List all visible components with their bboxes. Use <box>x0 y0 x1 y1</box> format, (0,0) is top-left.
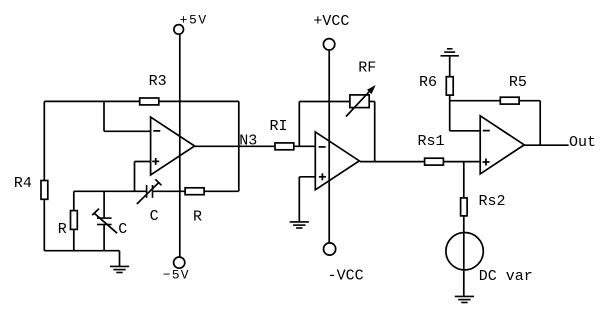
source DC var <box>446 233 483 270</box>
svg-text:R: R <box>193 208 202 225</box>
U2 plus sign <box>319 176 326 178</box>
ground U2 <box>290 221 309 223</box>
wire capacitor C1 bottom branch <box>103 225 105 251</box>
U3 minus sign <box>483 130 490 132</box>
ground DC source <box>455 295 474 297</box>
wire non-inverting drop U1 <box>134 162 136 192</box>
power -VCC terminal <box>324 243 336 255</box>
wire U2 non-inverting drop <box>298 177 300 222</box>
wire U3 output <box>524 144 568 146</box>
U1 minus sign <box>153 130 160 132</box>
resistor R5 <box>500 97 519 104</box>
svg-text:R3: R3 <box>149 73 167 90</box>
svg-text:−5V: −5V <box>163 267 190 282</box>
resistor RF (variable) <box>350 95 369 108</box>
svg-text:Rs2: Rs2 <box>479 193 506 210</box>
U2 minus sign <box>319 146 326 148</box>
power +VCC terminal <box>323 39 334 50</box>
power -5V terminal <box>174 257 185 268</box>
wire left vertical branch (R4) <box>43 101 45 250</box>
resistor R (vertical) <box>71 211 78 230</box>
wire stub R top <box>73 191 75 210</box>
wire U2 output to Rs1 <box>360 161 425 163</box>
svg-text:RI: RI <box>270 118 288 135</box>
svg-text:RF: RF <box>358 59 376 76</box>
wire U2 feedback top right segment <box>369 101 375 103</box>
svg-text:Rs1: Rs1 <box>418 133 445 150</box>
svg-text:+5V: +5V <box>180 12 208 27</box>
svg-text:DC var: DC var <box>479 268 533 285</box>
svg-text:C: C <box>150 208 159 225</box>
resistor Rs2 <box>461 198 468 216</box>
wire U2 feedback top left segment <box>299 101 350 103</box>
wire R5 feedback horizontal left <box>450 100 501 102</box>
wire lower feedback horizontal right segment <box>153 190 239 192</box>
wire inverting input drop U1 <box>103 101 105 131</box>
resistor RI <box>275 143 294 150</box>
wire U2 feedback right vertical <box>374 102 376 162</box>
wire Rs2 branch top <box>463 162 465 198</box>
wire capacitor C1 top branch <box>103 191 105 218</box>
wire lower feedback horizontal left segment <box>74 190 147 192</box>
svg-text:C: C <box>118 221 127 238</box>
wire ground to R6 <box>449 56 451 77</box>
U1 plus sign <box>152 160 159 162</box>
wire Rs2 to DC source and ground <box>463 216 465 297</box>
wire stub R bottom <box>73 229 75 250</box>
wire feedback vertical right of U1 <box>238 101 240 191</box>
wire bottom rail to ground <box>44 250 119 252</box>
wire U1 output <box>195 145 275 147</box>
wire U2 non-inverting input <box>299 176 315 178</box>
resistor Rs1 <box>425 158 444 165</box>
power +5V terminal <box>174 25 184 35</box>
wire U3 inverting input <box>450 130 481 132</box>
capacitor C1 (variable, vertical) <box>97 217 112 219</box>
wire U2 feedback left vertical <box>298 102 300 147</box>
wire non-inverting input U1 <box>135 161 151 163</box>
wire RI to U2 <box>294 145 316 147</box>
resistor R4 <box>41 181 48 200</box>
svg-text:-VCC: -VCC <box>328 267 364 284</box>
wire inverting input U1 <box>104 130 151 132</box>
op-amp U2 <box>315 132 359 190</box>
svg-text:R4: R4 <box>14 175 32 192</box>
U3 plus sign <box>483 161 490 163</box>
ground top right (inverted) <box>441 55 459 57</box>
resistor R (horizontal) <box>185 188 204 195</box>
ground left <box>110 265 129 267</box>
svg-text:+VCC: +VCC <box>313 13 349 30</box>
wire Rs1 to U3 plus input <box>443 161 480 163</box>
wire R5 feedback horizontal right <box>519 100 540 102</box>
wire R5 feedback vertical <box>539 101 541 146</box>
wire +5V supply rail vertical <box>179 34 181 257</box>
svg-text:N3: N3 <box>239 133 257 150</box>
op-amp U3 <box>480 116 524 174</box>
op-amp U1 <box>151 117 195 175</box>
capacitor C2 (variable, horizontal) <box>146 185 148 198</box>
wire R6 to U3 inverting corner <box>449 95 451 131</box>
wire ground stub left <box>119 251 121 267</box>
svg-text:R5: R5 <box>509 74 527 91</box>
wire top feedback (R3) horizontal <box>44 100 239 102</box>
resistor R6 <box>446 77 453 95</box>
svg-text:R6: R6 <box>419 74 437 91</box>
wire VCC supply rail vertical <box>328 50 330 243</box>
resistor R3 <box>140 98 159 105</box>
svg-text:Out: Out <box>569 134 596 151</box>
svg-text:R: R <box>58 221 67 238</box>
